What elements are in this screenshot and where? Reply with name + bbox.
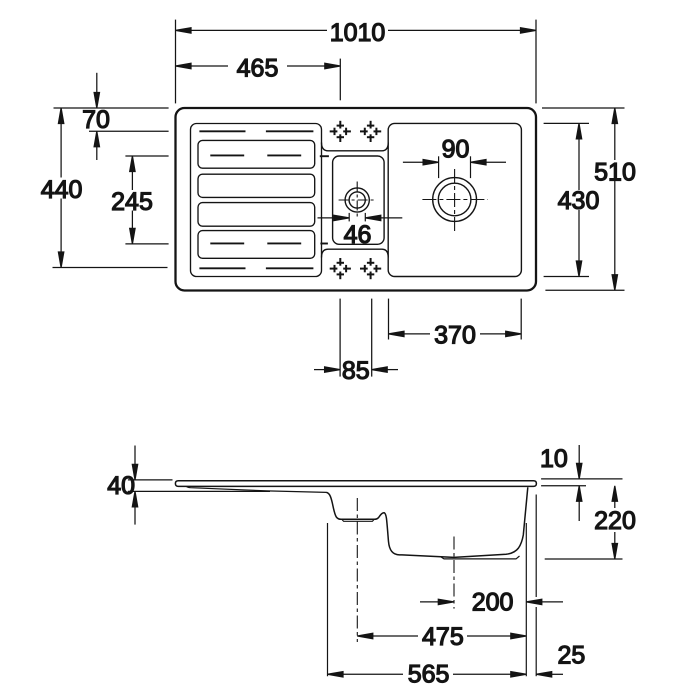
dim 1010 [176,20,537,104]
drainboard dashes row B [210,154,329,157]
centerline small drain (side) [356,498,358,642]
svg-text:46: 46 [344,221,372,249]
drainboard slot 1 [198,140,315,168]
extension line x327 [327,523,329,676]
small drain outer circle [345,188,369,212]
drainboard dashes row A [199,130,313,132]
svg-text:465: 465 [237,55,279,83]
svg-text:70: 70 [82,106,110,134]
dim 10 [541,445,622,521]
dim 90 arrows [403,160,506,165]
dim 475 [357,633,526,638]
rim bar [175,481,536,487]
main bowl [388,123,521,276]
main drain outer circle [433,178,477,222]
bowls profile [327,487,528,557]
faucet hole symbol bottom-left [330,258,351,279]
dim 510 [542,108,625,290]
dim 40 [128,446,173,525]
dim 46 ticks [349,213,365,222]
small drain recess [342,519,375,521]
svg-text:220: 220 [594,507,636,535]
svg-text:10: 10 [540,445,568,473]
svg-text:510: 510 [594,158,636,186]
drainboard surface profile [186,486,326,492]
dim 90 ticks [439,156,471,178]
drainboard slot 2 [198,174,315,197]
drainboard dashes row D [199,267,313,269]
extension line x536 [535,495,537,677]
faucet hole symbol top-left [330,121,351,142]
svg-text:40: 40 [107,472,135,500]
faucet hole symbol top-right [360,121,381,142]
sink outer outline (top view) [176,108,537,291]
svg-text:370: 370 [434,321,476,349]
dim 25 [536,672,563,677]
small drain centerlines [339,182,376,219]
main drain inner circle [438,183,471,216]
svg-text:200: 200 [472,589,514,617]
svg-text:90: 90 [442,135,470,163]
svg-text:475: 475 [422,623,464,651]
drainboard slot 3 [198,203,315,227]
dim 440 [53,108,168,268]
main drain recess [441,556,520,559]
faucet deck lower edge [322,249,389,257]
svg-text:440: 440 [41,176,83,204]
svg-text:1010: 1010 [330,19,386,47]
main drain centerlines [422,169,487,232]
small drain inner circle [349,192,365,208]
svg-text:430: 430 [558,187,600,215]
dim 46 arrows [318,215,403,220]
underside line [128,490,270,492]
dim 465 [176,59,341,101]
small bowl [333,156,385,244]
dim 220 [545,486,623,559]
drainboard dashes row C [210,242,328,244]
faucet hole symbol bottom-right [360,258,381,279]
dim 565 [328,672,527,677]
svg-text:245: 245 [111,188,153,216]
drainboard slot 4 [198,231,315,259]
dim 85 [314,299,398,377]
dim 245 [125,156,168,244]
svg-text:85: 85 [342,357,370,385]
dim 200 [420,599,563,604]
svg-text:565: 565 [408,661,450,689]
dim 70 [54,73,169,160]
faucet deck upper edge [322,143,389,151]
dim 430 [544,123,589,276]
centerline main drain (side) [453,537,455,609]
dim 370 [389,299,522,340]
drainboard area [191,124,322,277]
svg-text:25: 25 [557,641,585,669]
extension line x526 [525,523,527,676]
